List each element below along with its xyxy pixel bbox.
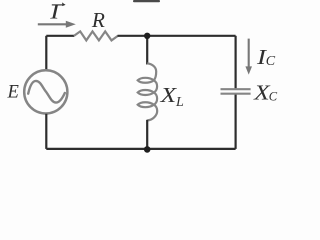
current arrow IC (gray, pointing down) [248,39,250,68]
svg-text:R: R [91,8,105,32]
svg-text:E: E [7,82,20,103]
node dot bottom [144,146,151,153]
wire: middle vertical upper [146,36,148,65]
capacitor XC bottom plate [221,93,251,95]
svg-text:L: L [175,95,184,110]
svg-text:C: C [269,89,278,103]
vec arrow over I [52,4,64,6]
capacitor XC top plate [221,88,251,90]
cropped artifact bar at top edge [133,0,160,2]
inductor XL coil [138,63,158,120]
svg-text:X: X [159,83,177,107]
resistor R [74,31,118,40]
node dot top [144,33,150,39]
wire: bottom [46,148,235,150]
wire: middle vertical lower [146,120,148,149]
wire: left vertical upper [45,36,47,70]
current arrow I (gray, pointing right) [38,23,68,25]
wire: left vertical lower [45,114,47,149]
wire: top left segment [46,35,74,37]
svg-text:I: I [49,0,61,24]
svg-text:C: C [266,54,276,69]
ac source U1 circle [24,70,67,113]
ac source sine wave [28,81,65,103]
wire: right vertical lower [235,95,237,149]
wire: right vertical upper [235,36,237,89]
wire: top right segment [118,35,236,37]
